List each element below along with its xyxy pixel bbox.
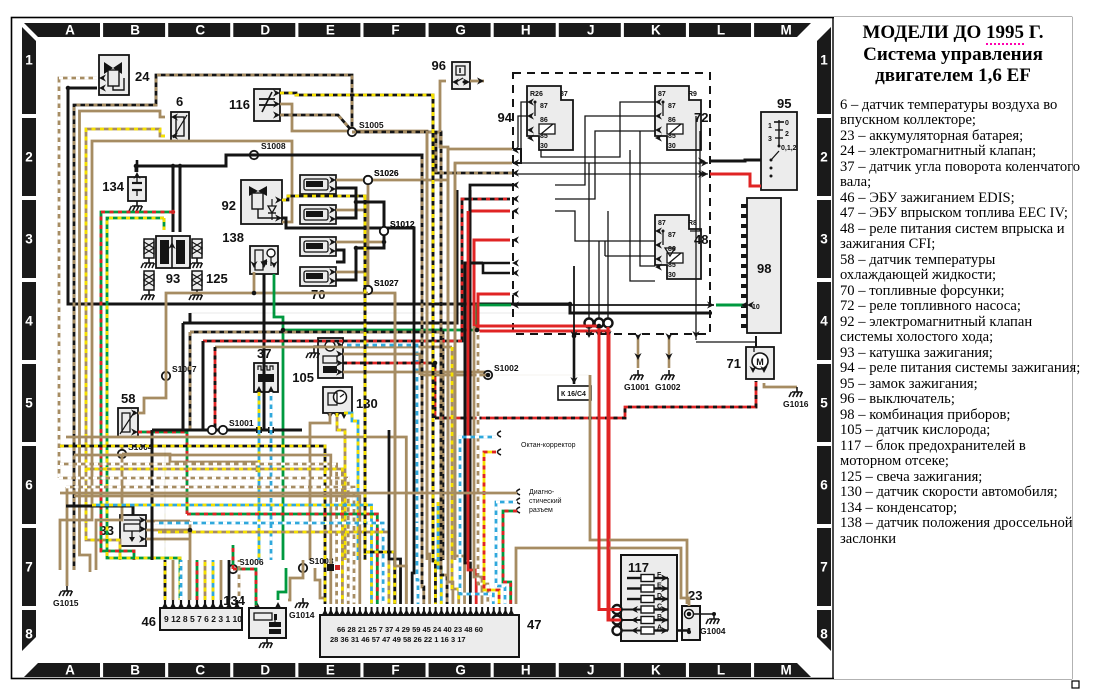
svg-text:G1014: G1014 bbox=[289, 610, 315, 620]
svg-text:95: 95 bbox=[777, 96, 791, 111]
svg-text:70: 70 bbox=[311, 287, 325, 302]
svg-text:E: E bbox=[326, 23, 335, 38]
svg-text:92: 92 bbox=[222, 198, 236, 213]
svg-text:86: 86 bbox=[668, 117, 676, 124]
svg-text:130: 130 bbox=[356, 396, 378, 411]
svg-text:98: 98 bbox=[757, 261, 771, 276]
svg-text:7: 7 bbox=[25, 560, 33, 575]
svg-text:3: 3 bbox=[768, 136, 772, 143]
svg-text:R26: R26 bbox=[530, 91, 543, 98]
svg-text:S1027: S1027 bbox=[374, 278, 399, 288]
svg-text:9 12 8 5 7 6 2 3 1 10: 9 12 8 5 7 6 2 3 1 10 bbox=[164, 614, 242, 624]
svg-text:3: 3 bbox=[25, 232, 33, 247]
svg-text:J: J bbox=[587, 663, 595, 678]
svg-text:H: H bbox=[521, 23, 531, 38]
svg-text:2: 2 bbox=[25, 150, 33, 165]
svg-text:6: 6 bbox=[820, 478, 828, 493]
svg-text:30: 30 bbox=[540, 143, 548, 150]
svg-text:30: 30 bbox=[668, 272, 676, 279]
svg-text:58: 58 bbox=[121, 391, 135, 406]
svg-text:4: 4 bbox=[25, 314, 33, 329]
svg-text:66 28 21 25 7 37 4: 66 28 21 25 7 37 4 29 59 45 24 40 23 48 … bbox=[337, 625, 483, 634]
svg-text:G: G bbox=[455, 23, 466, 38]
svg-text:B: B bbox=[130, 23, 140, 38]
svg-text:E: E bbox=[326, 663, 335, 678]
svg-text:M: M bbox=[780, 23, 791, 38]
svg-text:0: 0 bbox=[785, 120, 789, 127]
svg-text:87: 87 bbox=[560, 91, 568, 98]
svg-text:96: 96 bbox=[432, 58, 446, 73]
svg-text:C: C bbox=[195, 23, 205, 38]
svg-text:24: 24 bbox=[135, 69, 150, 84]
svg-text:S1008: S1008 bbox=[261, 141, 286, 151]
svg-text:C: C bbox=[195, 663, 205, 678]
svg-text:S1012: S1012 bbox=[390, 219, 415, 229]
svg-text:0,1,2: 0,1,2 bbox=[781, 145, 797, 152]
svg-text:Октан-корректор: Октан-корректор bbox=[521, 442, 576, 449]
svg-text:87: 87 bbox=[668, 103, 676, 110]
svg-text:G1002: G1002 bbox=[655, 382, 681, 392]
svg-text:125: 125 bbox=[206, 271, 228, 286]
svg-text:разъем: разъем bbox=[529, 507, 553, 514]
svg-text:87: 87 bbox=[658, 91, 666, 98]
svg-text:71: 71 bbox=[727, 356, 741, 371]
svg-text:K: K bbox=[651, 23, 661, 38]
svg-text:G1001: G1001 bbox=[624, 382, 650, 392]
svg-text:S1026: S1026 bbox=[374, 168, 399, 178]
svg-text:S1001: S1001 bbox=[229, 418, 254, 428]
svg-text:F: F bbox=[391, 663, 399, 678]
svg-text:S1005: S1005 bbox=[359, 120, 384, 130]
svg-text:S1006: S1006 bbox=[239, 557, 264, 567]
svg-text:134: 134 bbox=[223, 593, 245, 608]
svg-text:L: L bbox=[717, 663, 725, 678]
svg-text:Диагно-: Диагно- bbox=[529, 489, 555, 496]
svg-text:L: L bbox=[717, 23, 725, 38]
svg-text:D: D bbox=[260, 23, 270, 38]
svg-text:94: 94 bbox=[498, 110, 513, 125]
svg-text:J: J bbox=[587, 23, 595, 38]
svg-text:2: 2 bbox=[820, 150, 828, 165]
svg-text:G1016: G1016 bbox=[783, 399, 809, 409]
svg-text:5: 5 bbox=[820, 396, 828, 411]
svg-text:7: 7 bbox=[820, 560, 828, 575]
svg-text:H: H bbox=[521, 663, 531, 678]
svg-text:47: 47 bbox=[527, 617, 541, 632]
svg-text:стический: стический bbox=[529, 497, 562, 505]
svg-text:117: 117 bbox=[628, 560, 649, 575]
svg-text:2: 2 bbox=[785, 131, 789, 138]
svg-text:86: 86 bbox=[540, 117, 548, 124]
svg-text:B: B bbox=[130, 663, 140, 678]
svg-text:46: 46 bbox=[142, 614, 156, 629]
svg-text:1: 1 bbox=[25, 53, 33, 68]
svg-text:105: 105 bbox=[292, 370, 314, 385]
svg-text:A: A bbox=[65, 23, 75, 38]
svg-text:R9: R9 bbox=[688, 91, 697, 98]
svg-text:87: 87 bbox=[658, 220, 666, 227]
svg-text:A: A bbox=[65, 663, 75, 678]
svg-text:К 16/С4: К 16/С4 bbox=[561, 391, 586, 398]
svg-text:1: 1 bbox=[820, 53, 828, 68]
svg-text:G1004: G1004 bbox=[700, 626, 726, 636]
svg-text:K: K bbox=[651, 663, 661, 678]
svg-text:3: 3 bbox=[820, 232, 828, 247]
svg-text:138: 138 bbox=[222, 230, 244, 245]
svg-text:28 36 31 46 57: 28 36 31 46 57 47 49 58 26 22 1 16 3 17 bbox=[330, 635, 466, 644]
svg-text:6: 6 bbox=[176, 94, 183, 109]
svg-text:8: 8 bbox=[820, 627, 828, 642]
svg-text:93: 93 bbox=[166, 271, 180, 286]
svg-text:D: D bbox=[260, 663, 270, 678]
svg-text:S1002: S1002 bbox=[494, 363, 519, 373]
svg-text:87: 87 bbox=[540, 103, 548, 110]
svg-text:M: M bbox=[780, 663, 791, 678]
svg-text:8: 8 bbox=[25, 627, 33, 642]
svg-text:1: 1 bbox=[768, 123, 772, 130]
svg-text:87: 87 bbox=[668, 232, 676, 239]
svg-text:М: М bbox=[756, 357, 764, 367]
svg-text:116: 116 bbox=[229, 97, 250, 112]
svg-text:G1015: G1015 bbox=[53, 598, 79, 608]
svg-text:4: 4 bbox=[820, 314, 828, 329]
svg-text:5: 5 bbox=[25, 396, 33, 411]
svg-text:134: 134 bbox=[102, 179, 124, 194]
svg-text:6: 6 bbox=[25, 478, 33, 493]
svg-text:30: 30 bbox=[668, 143, 676, 150]
svg-text:F: F bbox=[391, 23, 399, 38]
svg-text:G: G bbox=[455, 663, 466, 678]
